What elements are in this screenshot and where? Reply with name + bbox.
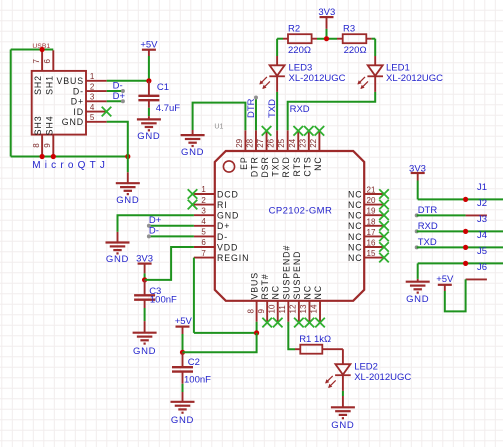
svg-text:CTS: CTS xyxy=(302,156,312,176)
svg-text:SUSPEND: SUSPEND xyxy=(292,251,302,300)
svg-text:RI: RI xyxy=(217,200,228,210)
svg-text:D-: D- xyxy=(217,232,228,242)
svg-text:9: 9 xyxy=(257,309,266,314)
svg-text:NC: NC xyxy=(348,211,363,221)
svg-text:D+: D+ xyxy=(71,97,84,107)
svg-text:C1: C1 xyxy=(157,82,169,93)
svg-text:100nF: 100nF xyxy=(150,294,177,305)
svg-text:SH3: SH3 xyxy=(33,116,43,136)
svg-text:10: 10 xyxy=(267,304,276,313)
svg-text:SH2: SH2 xyxy=(33,75,43,95)
svg-text:16: 16 xyxy=(367,239,376,248)
svg-text:4: 4 xyxy=(201,217,206,226)
svg-text:D-: D- xyxy=(73,86,84,96)
svg-text:NC: NC xyxy=(313,156,323,171)
svg-text:TXD: TXD xyxy=(271,156,281,176)
svg-text:D-: D- xyxy=(149,226,159,237)
svg-text:3: 3 xyxy=(201,206,206,215)
svg-text:21: 21 xyxy=(367,186,376,195)
svg-text:28: 28 xyxy=(245,138,254,147)
svg-text:NC: NC xyxy=(271,285,281,300)
svg-text:R2: R2 xyxy=(288,23,300,34)
svg-text:R1 1kΩ: R1 1kΩ xyxy=(299,334,331,345)
svg-text:20: 20 xyxy=(367,196,376,205)
svg-text:GND: GND xyxy=(106,254,129,265)
svg-text:D+: D+ xyxy=(149,215,162,226)
svg-text:100nF: 100nF xyxy=(184,375,211,386)
svg-text:3: 3 xyxy=(90,93,95,102)
svg-text:GND: GND xyxy=(137,131,160,142)
svg-text:22: 22 xyxy=(309,138,318,147)
svg-text:NC: NC xyxy=(348,221,363,231)
svg-text:7: 7 xyxy=(201,249,206,258)
svg-text:DTR: DTR xyxy=(418,205,438,216)
svg-text:NC: NC xyxy=(313,285,323,300)
svg-text:1: 1 xyxy=(90,72,95,81)
svg-text:NC: NC xyxy=(302,285,312,300)
svg-text:NC: NC xyxy=(348,189,363,199)
svg-text:VBUS: VBUS xyxy=(250,272,260,300)
svg-text:GND: GND xyxy=(133,346,156,357)
svg-text:7: 7 xyxy=(32,59,41,64)
svg-text:D+: D+ xyxy=(217,221,230,231)
svg-text:220Ω: 220Ω xyxy=(344,45,367,56)
svg-text:XL-2012UGC: XL-2012UGC xyxy=(354,372,411,383)
svg-text:4.7uF: 4.7uF xyxy=(156,103,180,114)
svg-text:MicroQTJ: MicroQTJ xyxy=(32,160,109,171)
svg-text:DSR: DSR xyxy=(260,156,270,177)
svg-text:NC: NC xyxy=(348,232,363,242)
svg-text:8: 8 xyxy=(32,143,41,148)
svg-text:+5V: +5V xyxy=(436,274,454,285)
svg-text:5: 5 xyxy=(90,113,95,122)
svg-text:TXD: TXD xyxy=(418,237,437,248)
svg-text:SH4: SH4 xyxy=(44,116,54,136)
svg-text:DTR: DTR xyxy=(249,156,259,177)
svg-text:9: 9 xyxy=(43,143,52,148)
svg-text:6: 6 xyxy=(201,238,206,247)
svg-text:4: 4 xyxy=(90,103,95,112)
svg-text:220Ω: 220Ω xyxy=(288,45,311,56)
svg-text:U1: U1 xyxy=(214,124,223,131)
svg-text:XL-2012UGC: XL-2012UGC xyxy=(289,73,346,84)
svg-text:C2: C2 xyxy=(188,357,200,368)
svg-text:J5: J5 xyxy=(477,246,487,257)
svg-text:2: 2 xyxy=(201,196,206,205)
svg-text:VBUS: VBUS xyxy=(56,76,84,86)
svg-text:RXD: RXD xyxy=(418,221,438,232)
svg-text:TXD: TXD xyxy=(267,99,278,118)
svg-text:18: 18 xyxy=(367,217,376,226)
svg-text:26: 26 xyxy=(267,138,276,147)
svg-text:RTS: RTS xyxy=(292,156,302,176)
svg-text:J4: J4 xyxy=(477,230,487,241)
svg-text:J3: J3 xyxy=(477,214,487,225)
svg-text:GND: GND xyxy=(62,117,84,127)
svg-text:6: 6 xyxy=(43,59,52,64)
svg-text:GND: GND xyxy=(406,294,429,305)
svg-text:SUSPEND#: SUSPEND# xyxy=(281,245,291,300)
svg-text:GND: GND xyxy=(217,211,239,221)
svg-text:LED2: LED2 xyxy=(354,361,378,372)
svg-text:14: 14 xyxy=(310,304,319,313)
svg-text:REGIN: REGIN xyxy=(217,253,249,263)
svg-text:DTR: DTR xyxy=(246,98,257,118)
svg-text:24: 24 xyxy=(288,138,297,147)
svg-text:2: 2 xyxy=(90,82,95,91)
svg-text:GND: GND xyxy=(116,195,139,206)
svg-text:8: 8 xyxy=(246,309,255,314)
svg-text:GND: GND xyxy=(171,415,194,426)
svg-text:XL-2012UGC: XL-2012UGC xyxy=(386,73,443,84)
svg-text:VDD: VDD xyxy=(217,242,238,252)
svg-text:CP2102-GMR: CP2102-GMR xyxy=(269,205,333,216)
svg-text:J1: J1 xyxy=(477,182,487,193)
svg-text:17: 17 xyxy=(367,228,376,237)
svg-text:29: 29 xyxy=(235,138,244,147)
svg-text:ID: ID xyxy=(73,107,84,117)
svg-text:J6: J6 xyxy=(477,262,487,273)
svg-text:19: 19 xyxy=(367,207,376,216)
svg-text:12: 12 xyxy=(289,304,298,313)
svg-text:DCD: DCD xyxy=(217,189,239,199)
svg-text:25: 25 xyxy=(277,138,286,147)
svg-text:LED1: LED1 xyxy=(386,62,410,73)
svg-text:SH1: SH1 xyxy=(44,75,54,95)
svg-text:13: 13 xyxy=(299,304,308,313)
svg-text:RXD: RXD xyxy=(281,156,291,177)
svg-text:LED3: LED3 xyxy=(289,62,313,73)
svg-text:GND: GND xyxy=(181,147,204,158)
svg-text:RST#: RST# xyxy=(260,273,270,299)
svg-text:EP: EP xyxy=(239,156,249,170)
svg-text:15: 15 xyxy=(367,249,376,258)
svg-text:RXD: RXD xyxy=(290,104,310,115)
svg-text:1: 1 xyxy=(201,185,206,194)
svg-text:NC: NC xyxy=(348,200,363,210)
svg-text:27: 27 xyxy=(256,138,265,147)
svg-text:GND: GND xyxy=(331,420,354,431)
svg-text:NC: NC xyxy=(348,253,363,263)
svg-text:NC: NC xyxy=(348,242,363,252)
svg-text:11: 11 xyxy=(278,305,287,314)
svg-text:D+: D+ xyxy=(113,91,126,102)
svg-text:J2: J2 xyxy=(477,198,487,209)
svg-text:5: 5 xyxy=(201,228,206,237)
svg-text:23: 23 xyxy=(298,138,307,147)
svg-text:R3: R3 xyxy=(343,23,355,34)
